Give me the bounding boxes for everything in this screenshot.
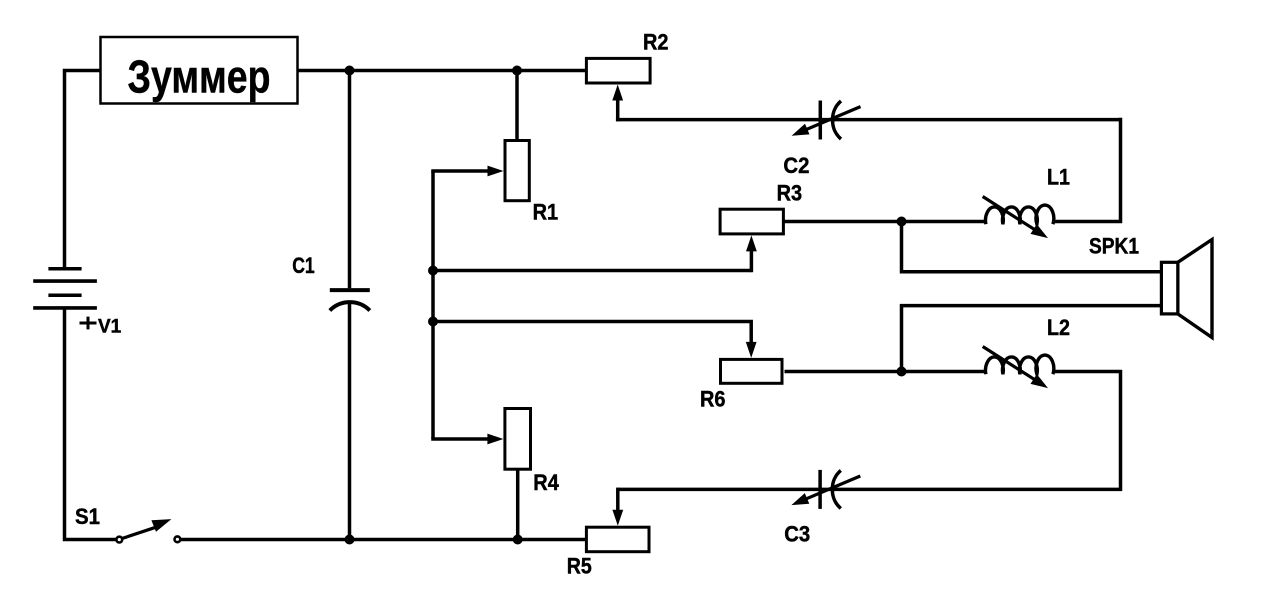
wire R1 top lead <box>515 69 519 142</box>
wire speaker top lead <box>902 222 1163 272</box>
wire L1 rail right (coil to corner) <box>1052 220 1122 224</box>
wire R1 wiper arm <box>431 169 490 173</box>
resistor R5 (pot) <box>567 510 649 579</box>
svg-text:C1: C1 <box>292 253 315 278</box>
node L1/speaker junction <box>897 217 907 227</box>
wire L1 rail left (R3 right to coil) <box>785 220 988 224</box>
svg-text:SPK1: SPK1 <box>1089 234 1139 259</box>
capacitor C1 <box>292 253 370 311</box>
node buzzer/C1 junction <box>345 66 355 76</box>
wire speaker bottom lead <box>902 306 1163 373</box>
svg-text:R2: R2 <box>643 29 669 54</box>
wire R5 wiper drop <box>616 488 620 514</box>
svg-text:R3: R3 <box>777 181 803 206</box>
node bus/R6-wiper junction <box>428 317 438 327</box>
buzzer box (Зуммер) <box>101 37 298 104</box>
svg-text:S1: S1 <box>75 504 100 529</box>
resistor R1 (pot) <box>488 141 559 225</box>
svg-text:V1: V1 <box>98 317 122 338</box>
wire R4 bottom lead <box>516 468 520 542</box>
speaker SPK1 <box>1089 234 1212 338</box>
node R4 bottom junction <box>513 535 523 545</box>
resistor R4 (pot) <box>487 409 559 496</box>
svg-text:Зуммер: Зуммер <box>128 51 271 103</box>
wire battery bottom to switch S1 <box>65 308 117 540</box>
wire L2 rail right (coil to corner) <box>1052 370 1122 374</box>
svg-text:L2: L2 <box>1047 315 1070 340</box>
wire switch to bottom rail / R5 left <box>180 538 588 542</box>
variable inductor L1 <box>983 164 1070 238</box>
svg-text:C2: C2 <box>783 153 809 178</box>
wire buzzer-left to battery top <box>65 71 101 269</box>
variable capacitor C2 <box>783 101 860 179</box>
node bus/R3-wiper junction <box>428 266 438 276</box>
node bus vertical x=433 <box>431 171 435 439</box>
resistor R3 (pot) <box>720 181 802 252</box>
node C1 bottom junction <box>345 535 355 545</box>
wire R6 wiper rail <box>433 322 751 347</box>
battery V1 <box>33 269 121 338</box>
svg-text:R4: R4 <box>533 470 559 495</box>
variable inductor L2 <box>983 315 1070 388</box>
wire right vertical bottom <box>1119 370 1123 491</box>
node R1 top junction <box>512 66 522 76</box>
wire R3 wiper rail <box>431 269 751 273</box>
wire C2 rail (R2 wiper to right) <box>616 118 1121 122</box>
variable capacitor C3 <box>784 470 860 547</box>
wire buzzer right to R2 left <box>298 69 589 73</box>
svg-text:R1: R1 <box>533 199 559 224</box>
wire C1 bottom lead <box>348 304 352 542</box>
wire C1 top lead <box>348 69 352 288</box>
svg-text:C3: C3 <box>784 522 810 547</box>
node L2/speaker junction <box>897 367 907 377</box>
wire R2 wiper riser <box>616 95 620 121</box>
wire right vertical top <box>1119 118 1123 223</box>
resistor R6 (pot) <box>700 342 782 412</box>
wire R3 wiper riser <box>750 248 754 272</box>
wire C3 rail <box>618 488 1122 492</box>
wire L2 rail left (R6 right to coil) <box>785 370 988 374</box>
switch S1 <box>75 504 180 542</box>
resistor R2 (pot) <box>586 29 668 100</box>
svg-text:L1: L1 <box>1047 164 1070 189</box>
svg-text:R5: R5 <box>567 554 592 579</box>
wire R4 wiper arm <box>431 437 490 441</box>
svg-text:R6: R6 <box>700 386 726 411</box>
